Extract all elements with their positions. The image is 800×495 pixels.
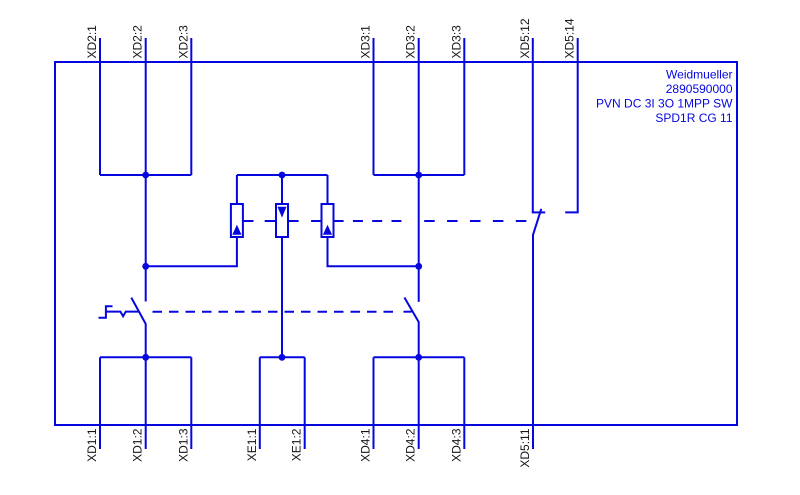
svg-text:XE1:2: XE1:2 (290, 428, 304, 461)
svg-text:XD1:2: XD1:2 (131, 428, 145, 462)
svg-text:XD4:2: XD4:2 (404, 428, 418, 462)
svg-text:XD3:3: XD3:3 (449, 25, 463, 59)
svg-text:XD2:2: XD2:2 (131, 25, 145, 59)
svg-text:XD5:12: XD5:12 (518, 18, 532, 58)
svg-text:2890590000: 2890590000 (666, 82, 733, 96)
svg-text:SPD1R CG 11: SPD1R CG 11 (655, 111, 732, 125)
svg-text:XD2:3: XD2:3 (176, 25, 190, 59)
svg-text:XD1:3: XD1:3 (176, 428, 190, 462)
svg-text:XD2:1: XD2:1 (85, 25, 99, 59)
svg-text:XD5:14: XD5:14 (563, 18, 577, 58)
svg-text:XD4:3: XD4:3 (449, 428, 463, 462)
svg-text:XD3:2: XD3:2 (404, 25, 418, 59)
svg-text:Weidmueller: Weidmueller (666, 68, 732, 82)
svg-text:XE1:1: XE1:1 (245, 428, 259, 461)
svg-text:XD5:11: XD5:11 (518, 428, 532, 467)
svg-text:PVN DC 3I 3O 1MPP SW: PVN DC 3I 3O 1MPP SW (596, 97, 733, 111)
svg-text:XD1:1: XD1:1 (85, 428, 99, 462)
svg-text:XD4:1: XD4:1 (359, 428, 373, 462)
svg-text:XD3:1: XD3:1 (359, 25, 373, 59)
